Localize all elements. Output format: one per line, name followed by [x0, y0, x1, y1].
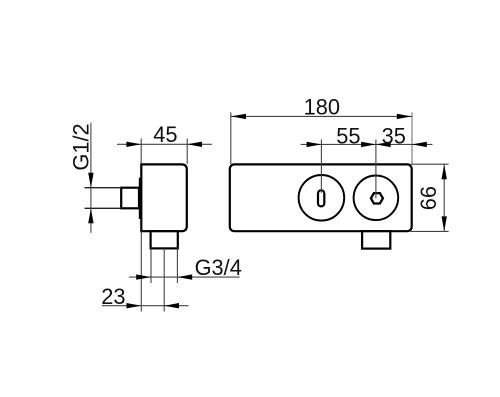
dim 55 left arrow [307, 142, 322, 147]
dim 55/35 shared extension line at right knob centre [375, 140, 377, 199]
dim G3/4 left arrow [136, 274, 151, 279]
dim 35 right arrow [412, 142, 427, 147]
svg-text:45: 45 [153, 122, 177, 147]
left view: bottom outlet adapter [151, 231, 178, 248]
dim 55/35 dimension line [301, 143, 433, 145]
dim 180 extension line left [230, 112, 232, 164]
dim 66 extension line bottom [411, 230, 449, 232]
dim 66 dimension line [443, 164, 445, 231]
dim 55 extension line at left knob centre [320, 140, 322, 193]
dim 23 left arrow [127, 303, 142, 308]
svg-text:23: 23 [101, 284, 125, 309]
dim 66 up arrow [442, 164, 447, 179]
dim 23 dimension line [102, 305, 189, 307]
svg-text:55: 55 [336, 124, 360, 149]
right view: left handle circle [299, 175, 345, 221]
right view: right handle circle [354, 176, 399, 221]
svg-text:G3/4: G3/4 [195, 255, 242, 280]
dim G1/2 up arrow [88, 208, 93, 223]
dim 23 right arrow [164, 303, 179, 308]
dim G3/4 right arrow [177, 274, 192, 279]
svg-text:G1/2: G1/2 [69, 123, 94, 170]
svg-text:35: 35 [382, 124, 406, 149]
svg-text:180: 180 [304, 94, 340, 119]
right view: bottom outlet stub [362, 231, 390, 248]
right view: hexagon in right handle [371, 193, 383, 203]
left view: wall flange bar [139, 178, 142, 219]
dim 45 extension line right [186, 139, 188, 165]
dim 180 dimension line [231, 115, 412, 117]
left view: inlet pipe bottom wall [85, 207, 122, 209]
dim 45 right arrow [187, 142, 202, 147]
dim 180 right arrow [397, 114, 412, 119]
left view: valve body (side profile) [141, 164, 187, 231]
dim 180 left arrow [231, 114, 246, 119]
dim G3/4 extension line right [176, 248, 178, 283]
dim 23 extension line at outlet centre [163, 248, 165, 311]
dim 55 right arrow [376, 142, 391, 147]
dim 180 extension line right [411, 112, 413, 163]
dim G1/2 vertical dimension line [90, 123, 92, 233]
svg-text:66: 66 [416, 186, 441, 210]
dim 23 extension line at body edge [140, 231, 142, 311]
dim G1/2 down arrow [88, 173, 93, 188]
dim 66 down arrow [442, 216, 447, 231]
dim G3/4 leader line [129, 276, 240, 278]
left view: inlet pipe top wall [85, 187, 122, 189]
right view: slot in left handle [318, 190, 324, 206]
dim 45 left arrow [126, 142, 141, 147]
dim 45 dimension line [117, 143, 212, 145]
dim G3/4 extension line left [150, 248, 152, 283]
dim 66 extension line top [411, 163, 449, 165]
dim 45 extension line left [140, 139, 142, 165]
left view: inlet nut [121, 188, 139, 209]
right view: valve body (front) [230, 164, 412, 231]
dim 35 left arrow [361, 142, 376, 147]
